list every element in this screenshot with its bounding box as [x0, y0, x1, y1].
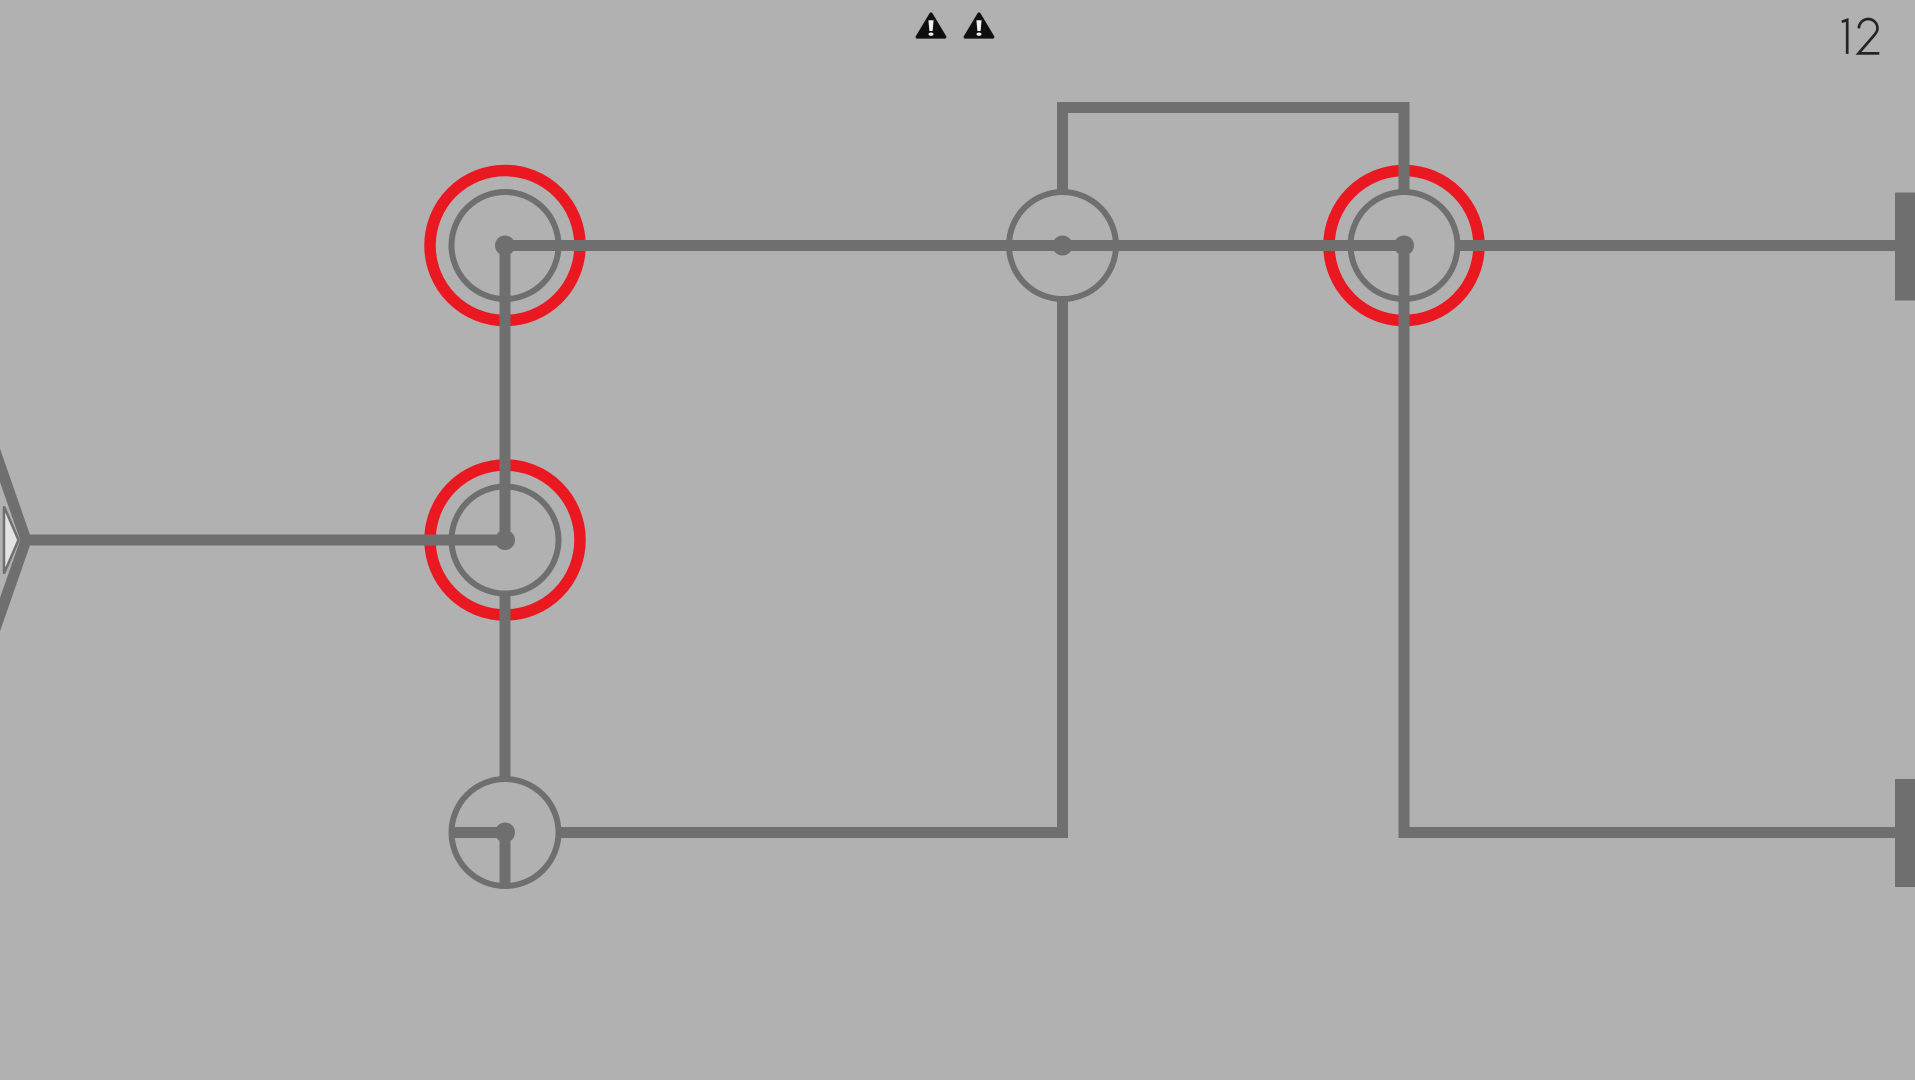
wire: C left spoke: [452, 827, 506, 838]
node B dot: [495, 530, 515, 550]
node A dot: [495, 236, 515, 256]
wire: E down to corner right to socket: [1404, 246, 1915, 833]
red ring node B: [430, 465, 580, 615]
socket bottom right: [1895, 779, 1915, 887]
input source triangle (left edge): [0, 236, 26, 844]
socket top right: [1895, 193, 1915, 301]
wire: B bottom edge to C top edge: [500, 591, 511, 779]
node E dot: [1394, 236, 1414, 256]
red ring node E: [1329, 171, 1479, 321]
wire: E right edge to socket: [1458, 240, 1915, 251]
node C dot: [495, 823, 515, 843]
wire: top row horizontal A-D-E: [505, 240, 1404, 251]
warning icon 2: [965, 14, 993, 37]
wire: C right to corner up to D bottom: [559, 299, 1063, 833]
node B circle: [452, 487, 559, 594]
node D circle: [1009, 192, 1116, 299]
node E circle: [1351, 192, 1458, 299]
wire: C down spoke: [500, 833, 511, 887]
wire: A down to B dot: [500, 246, 511, 541]
node C circle: [452, 779, 559, 886]
warning icon 1: [917, 14, 945, 37]
counter 12: [1842, 19, 1880, 54]
node A circle: [452, 192, 559, 299]
node D dot: [1053, 236, 1073, 256]
red ring node A: [430, 171, 580, 321]
wire: source to B dot: [24, 535, 505, 546]
wire: top bracket D to E: [1063, 108, 1405, 193]
